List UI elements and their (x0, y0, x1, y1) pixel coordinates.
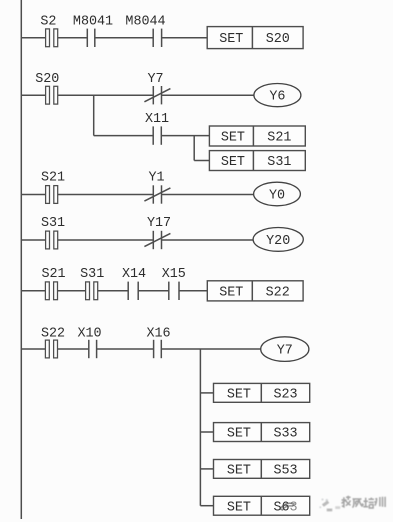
wire X10 to X16 (97, 348, 154, 350)
svg-text:S22: S22 (41, 327, 65, 342)
SET coil box SET S33 (214, 423, 310, 442)
output coil Y20 (253, 228, 303, 252)
svg-text:S31: S31 (80, 267, 104, 282)
svg-text:S20: S20 (266, 32, 290, 47)
SET coil box SET S31 (209, 151, 305, 171)
output coil Y6 (254, 84, 301, 107)
svg-text:X16: X16 (146, 327, 170, 342)
wire M8041 to M8044 (95, 37, 153, 39)
svg-text:Y0: Y0 (269, 189, 285, 204)
wire S31 to Y17 contact (58, 239, 154, 241)
wire stub to SET S23 box (200, 392, 213, 394)
wire Y7 contact to coil Y6 (162, 94, 255, 96)
svg-text:X15: X15 (162, 267, 186, 282)
svg-text:SET: SET (227, 500, 251, 515)
SET coil box SET S21 (209, 126, 305, 146)
wire Y17 contact to coil Y20 (162, 239, 254, 241)
wire stub to SET S33 box (200, 431, 213, 433)
contact X10 (NO) (77, 327, 101, 359)
STL contact S31 rung5 (80, 267, 104, 299)
svg-text:S23: S23 (273, 387, 297, 402)
contact Y7 (NC) (144, 72, 170, 105)
svg-text:S22: S22 (266, 285, 290, 300)
wire rail to S31 (21, 239, 45, 241)
wire branch to X11 (94, 135, 154, 137)
watermark logo (319, 498, 339, 510)
svg-text:Y17: Y17 (147, 216, 171, 231)
left power rail (20, 0, 22, 519)
STL contact S31 (41, 216, 65, 249)
svg-text:S31: S31 (267, 155, 291, 170)
wire stub to SET S53 box (200, 468, 213, 470)
STL contact S2 (40, 15, 57, 47)
svg-text:SET: SET (221, 155, 245, 170)
wire branch down from rung 6 (199, 349, 201, 506)
svg-text:X14: X14 (122, 267, 146, 282)
wire X11 to SET S21 box (161, 135, 209, 137)
contact X11 (NO) (145, 112, 169, 145)
STL contact S20 (35, 72, 59, 104)
svg-text:SET: SET (227, 427, 251, 442)
wire branch down from rung 2 (93, 95, 95, 135)
svg-text:S31: S31 (41, 216, 65, 231)
svg-text:X10: X10 (77, 327, 101, 342)
contact X15 (NO) (162, 267, 186, 300)
output coil Y7 (261, 337, 309, 362)
svg-text:S21: S21 (41, 267, 65, 282)
svg-text:SET: SET (227, 463, 251, 478)
SET coil box SET S22 (207, 281, 303, 301)
wire X15 to SET S22 box (179, 290, 207, 292)
wire S2 to M8041 (58, 37, 88, 39)
svg-text:M8044: M8044 (125, 15, 165, 30)
wire rail to S2 (21, 37, 45, 39)
svg-text:S21: S21 (41, 171, 65, 186)
STL contact S22 (41, 327, 65, 358)
svg-text:SET: SET (221, 131, 245, 146)
contact M8044 (NO) (125, 15, 165, 47)
contact M8041 (NO) (73, 15, 113, 47)
svg-text:Y7: Y7 (147, 72, 163, 87)
output coil Y0 (254, 182, 301, 206)
wire S21 to Y1 contact (58, 194, 154, 196)
STL contact S21 (41, 171, 65, 204)
wire rail to S22 (21, 348, 45, 350)
svg-text:Y6: Y6 (269, 90, 285, 105)
watermark text ji cheng pei xun (342, 496, 386, 508)
svg-text:SET: SET (227, 387, 251, 402)
svg-text:SET: SET (219, 32, 243, 47)
SET coil box SET S20 (207, 27, 303, 49)
contact X14 (NO) (122, 267, 146, 300)
SET coil box SET S63 (214, 496, 310, 515)
svg-text:SET: SET (219, 285, 243, 300)
contact X16 (NO) (146, 327, 170, 359)
svg-text:S20: S20 (35, 72, 59, 87)
wire Y1 contact to coil Y0 (162, 194, 254, 196)
svg-text:Y1: Y1 (148, 171, 164, 186)
svg-text:S21: S21 (267, 131, 291, 146)
contact Y17 (NC) (144, 216, 171, 249)
svg-text:S33: S33 (273, 427, 297, 442)
wire rail to S21 (21, 194, 45, 196)
wire S31 to X14 (98, 290, 129, 292)
wire S20 to Y7 contact (58, 94, 154, 96)
SET coil box SET S53 (214, 460, 310, 479)
wire branch down to SET S31 (193, 136, 195, 161)
wire X14 to X15 (138, 290, 169, 292)
svg-text:S53: S53 (273, 463, 297, 478)
svg-text:S2: S2 (40, 15, 56, 30)
svg-text:X11: X11 (145, 112, 169, 127)
SET coil box SET S23 (214, 383, 310, 402)
wire rail to S21 (21, 290, 45, 292)
wire S22 to X10 (58, 348, 89, 350)
wire stub to SET S63 box (200, 505, 213, 507)
contact Y1 (NC) (144, 171, 170, 204)
STL contact S21 rung5 (41, 267, 65, 299)
svg-text:M8041: M8041 (73, 15, 113, 30)
wire rail to S20 (21, 94, 45, 96)
wire S21 to S31 (58, 290, 86, 292)
wire X16 to coil Y7 (161, 348, 260, 350)
wire stub to SET S31 box (194, 160, 209, 162)
svg-text:Y20: Y20 (266, 234, 290, 249)
svg-text:Y7: Y7 (277, 344, 293, 359)
wire M8044 to SET S20 box (162, 37, 208, 39)
